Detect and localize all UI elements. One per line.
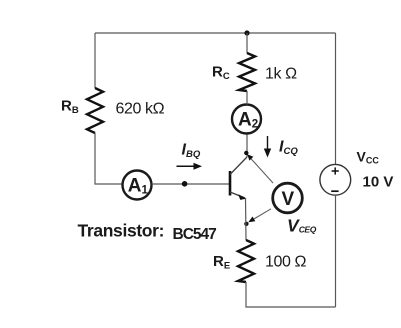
arrow IBQ (177, 163, 203, 170)
wire bottom (246, 282, 336, 307)
source VCC (320, 164, 351, 195)
resistor RB (87, 88, 103, 133)
node top junction (244, 30, 249, 35)
svg-text:100 Ω: 100 Ω (265, 254, 307, 271)
wire collector vertical (246, 134, 248, 157)
wire V probe lower (244, 209, 271, 226)
svg-text:BC547: BC547 (173, 226, 217, 243)
wire left vertical lower (95, 133, 122, 184)
wire top horizontal (95, 32, 336, 34)
svg-text:VCC: VCC (357, 149, 380, 166)
svg-text:ICQ: ICQ (279, 139, 298, 158)
ammeter A1 (123, 171, 152, 200)
wire base (152, 183, 230, 185)
voltmeter V (273, 183, 303, 213)
svg-text:Transistor:: Transistor: (78, 221, 165, 241)
svg-text:620 kΩ: 620 kΩ (116, 101, 165, 118)
transistor Q1 BC547 (230, 157, 247, 200)
svg-text:VCEQ: VCEQ (287, 216, 317, 236)
resistor RC (239, 53, 255, 91)
resistor RE (238, 240, 254, 282)
wire left vertical upper (94, 33, 96, 88)
svg-text:IBQ: IBQ (182, 142, 201, 161)
svg-text:V: V (282, 189, 295, 210)
arrow ICQ (264, 136, 271, 158)
svg-text:10 V: 10 V (363, 174, 394, 191)
ammeter A2 (232, 105, 261, 134)
wire RC bottom lead (246, 91, 248, 105)
svg-text:RC: RC (212, 64, 230, 83)
wire RC top lead (246, 33, 248, 53)
wire emitter vertical (245, 198, 248, 240)
node base junction (182, 181, 188, 187)
svg-text:1k Ω: 1k Ω (265, 66, 297, 83)
wire right vertical lower (335, 195, 337, 307)
wire right vertical upper (335, 33, 337, 165)
wire V probe upper (244, 151, 273, 183)
svg-text:RE: RE (213, 253, 230, 272)
svg-text:RB: RB (61, 98, 79, 117)
